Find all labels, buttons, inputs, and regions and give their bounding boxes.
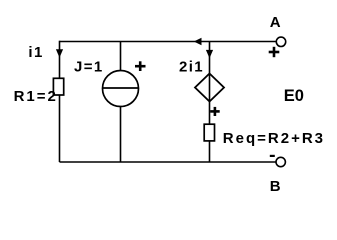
svg-text:E0: E0 xyxy=(284,87,304,105)
svg-text:R1=2: R1=2 xyxy=(14,88,58,105)
svg-text:i1: i1 xyxy=(28,44,43,61)
svg-text:B: B xyxy=(270,178,281,195)
svg-text:A: A xyxy=(270,14,281,31)
svg-text:J=1: J=1 xyxy=(74,59,104,76)
svg-text:2i1: 2i1 xyxy=(179,59,204,76)
svg-text:Req=R2+R3: Req=R2+R3 xyxy=(223,130,325,147)
